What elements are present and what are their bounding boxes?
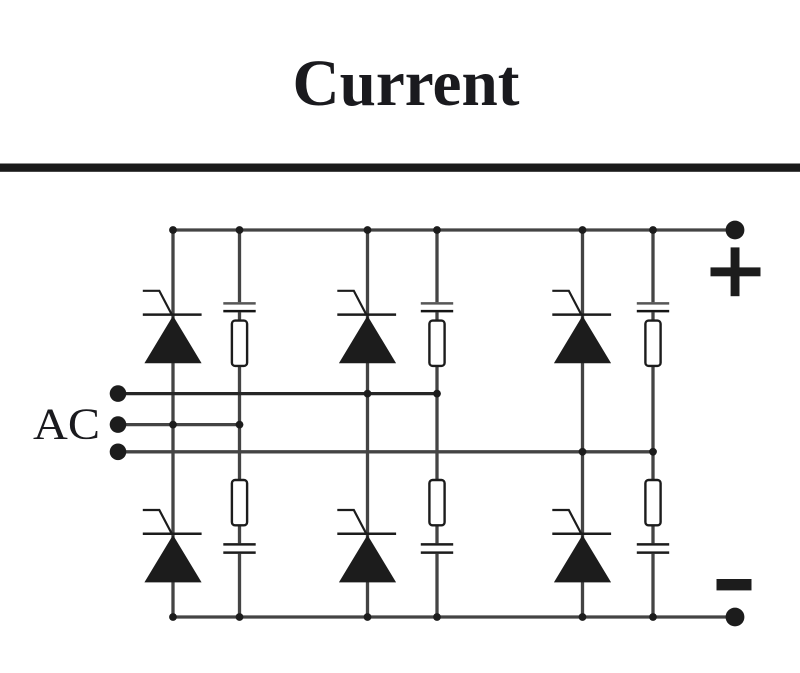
svg-text:AC: AC — [33, 399, 100, 449]
svg-text:Current: Current — [293, 48, 520, 120]
